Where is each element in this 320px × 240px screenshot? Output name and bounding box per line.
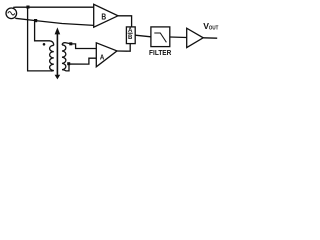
wire filter to output amp	[170, 36, 187, 39]
amplifier A	[96, 43, 117, 67]
wire primary-top drop	[35, 21, 54, 46]
pin square EXC1	[26, 6, 29, 9]
wire secondary-bottom to pin	[62, 58, 96, 71]
wire divider to filter	[135, 35, 151, 37]
secondary winding T1S	[62, 45, 66, 70]
primary winding T1P	[50, 45, 54, 71]
svg-text:A: A	[100, 52, 104, 61]
svg-text:A: A	[128, 28, 133, 34]
core arrow up head	[55, 27, 61, 34]
oscillator source OSC	[6, 8, 17, 19]
wire primary-bottom drop	[28, 7, 51, 71]
wire B output to divider	[118, 16, 132, 27]
oscillator sine symbol	[8, 12, 15, 15]
wire top excitation	[13, 6, 94, 8]
filter lowpass symbol	[154, 33, 166, 42]
wire lower excitation	[15, 18, 93, 25]
wire secondary-top to pin	[62, 43, 96, 49]
svg-text:VOUT: VOUT	[203, 21, 219, 31]
filter block	[151, 27, 170, 47]
svg-text:FILTER: FILTER	[149, 50, 171, 57]
core arrow down head	[55, 75, 61, 80]
wire VOUT	[203, 37, 217, 39]
divider fraction bar	[128, 32, 133, 34]
core arrow shaft	[56, 31, 58, 76]
pin square SEC-A	[69, 42, 72, 45]
pin square EXC2	[34, 19, 37, 22]
pin square SEC-B	[67, 62, 70, 65]
svg-text:B: B	[128, 35, 133, 41]
svg-text:B: B	[101, 12, 106, 22]
amplifier B	[94, 4, 118, 27]
wire A output to divider	[117, 44, 130, 52]
output amplifier	[187, 28, 204, 47]
divider block A/B	[126, 27, 135, 44]
primary polarity dot	[43, 43, 46, 46]
